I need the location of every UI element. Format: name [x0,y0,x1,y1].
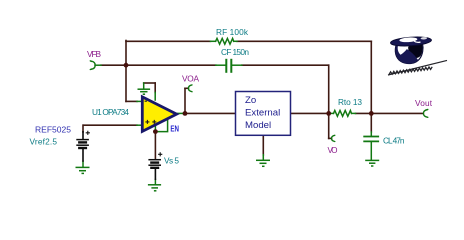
svg-text:Model: Model [245,120,271,131]
svg-text:EN: EN [170,125,179,134]
svg-text:VFB: VFB [87,49,101,59]
svg-text:RF 100k: RF 100k [216,27,249,37]
svg-text:VOA: VOA [182,74,199,84]
svg-text:CF 150n: CF 150n [221,47,249,57]
svg-text:U1 OPA734: U1 OPA734 [92,107,129,117]
svg-text:CL 47n: CL 47n [383,136,405,146]
svg-text:Vout: Vout [415,98,433,108]
svg-text:REF5025: REF5025 [35,125,71,135]
svg-text:Vs 5: Vs 5 [164,155,179,165]
svg-text:External: External [245,107,280,118]
svg-text:Zo: Zo [245,95,256,106]
svg-text:Rto 13: Rto 13 [338,97,362,107]
svg-text:Vref2.5: Vref2.5 [30,137,58,147]
svg-text:VO: VO [328,146,338,155]
